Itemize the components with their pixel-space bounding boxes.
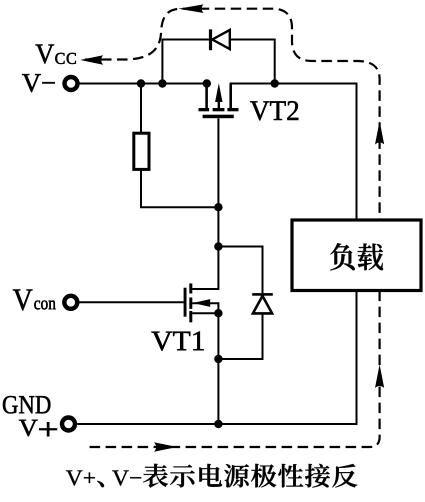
wire: Vcon gate lead xyxy=(78,301,184,303)
label VT2 xyxy=(250,101,298,120)
dashed current loop (bottom-right path) xyxy=(90,291,380,447)
transistor VT2 (channel bars, gate bar, substrate arrow) xyxy=(199,83,239,118)
wire: node to diode D1 top xyxy=(218,247,262,294)
label GND xyxy=(3,396,50,414)
junction: spine / diode D1 top branch xyxy=(214,242,222,250)
wire: VT2 drain stub, right rail, down to load xyxy=(229,85,232,109)
arrowhead to Vcc (left) xyxy=(80,55,103,64)
arrowhead top dashed (left) xyxy=(178,4,203,13)
arrowhead right dashed lower (up) xyxy=(375,365,384,389)
junction: VT2 gate / resistor bottom xyxy=(214,203,222,211)
arrowhead right dashed upper (up) xyxy=(375,121,384,145)
wire: diode D1 bottom to spine xyxy=(218,313,262,359)
label V- xyxy=(22,74,55,92)
junction: spine / diode D1 bottom branch xyxy=(214,355,222,363)
wire: V- rail xyxy=(80,83,207,85)
junction: bottom rail / VT1 source leg xyxy=(214,420,222,428)
wire: bottom rail and load bottom leg xyxy=(77,291,356,425)
wire: resistor bottom leg to gate node xyxy=(141,169,218,207)
label V+ xyxy=(19,420,57,436)
load box xyxy=(292,220,421,291)
junction: V- rail / resistor branch xyxy=(137,79,145,87)
dashed current loop (top path to Vcc) xyxy=(85,9,380,219)
junction: V- rail / diode D2 cathode leg xyxy=(271,79,279,87)
diode D1 (body diode of VT1, cathode bar up) xyxy=(252,293,273,313)
label Vcc xyxy=(35,45,75,65)
wire: VT2 source stub xyxy=(205,84,208,109)
caption: V+ / V- indicate reversed supply polarity xyxy=(66,464,357,488)
junction: V- rail / diode D2 anode leg xyxy=(158,79,166,87)
transistor VT1 (gate bar, channel bars, body arrow) xyxy=(184,283,211,322)
junction: VT1 source / body tie xyxy=(214,309,222,317)
label Vcon xyxy=(13,289,56,310)
resistor R1 xyxy=(134,133,149,169)
wire: diode D2 right leg xyxy=(230,40,275,84)
load label 负载 xyxy=(330,243,383,270)
wire: resistor top leg xyxy=(140,84,142,134)
terminal V+ xyxy=(62,418,75,431)
wire: VT1 source lead, spine to bottom rail xyxy=(192,313,218,424)
terminal Vcon xyxy=(64,296,77,309)
terminal V- xyxy=(65,77,78,90)
wire: VT1 body lead xyxy=(192,303,218,313)
label VT1 xyxy=(151,332,203,351)
arrowhead bottom dashed (right) xyxy=(154,442,177,452)
junction: V- rail / VT2 source stub xyxy=(203,79,211,87)
wire: VT2 gate spine down to VT1 drain xyxy=(192,118,218,289)
diode D2 (top, cathode bar left) xyxy=(209,29,230,50)
wire: diode D2 left leg xyxy=(162,40,209,84)
